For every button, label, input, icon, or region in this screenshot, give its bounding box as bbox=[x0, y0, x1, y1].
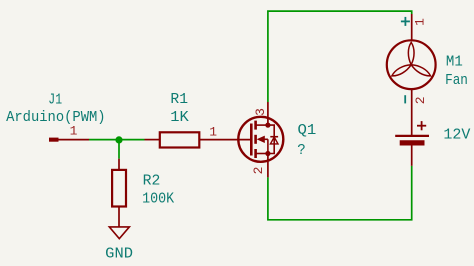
svg-text:1: 1 bbox=[412, 18, 427, 26]
svg-text:Arduino(PWM): Arduino(PWM) bbox=[6, 110, 106, 126]
svg-text:2: 2 bbox=[413, 96, 428, 104]
svg-text:3: 3 bbox=[253, 108, 268, 116]
svg-text:1: 1 bbox=[70, 124, 78, 139]
svg-text:GND: GND bbox=[105, 246, 133, 263]
svg-text:R2: R2 bbox=[143, 174, 161, 190]
svg-text:100K: 100K bbox=[142, 191, 174, 207]
svg-text:?: ? bbox=[297, 143, 306, 159]
svg-text:J1: J1 bbox=[48, 92, 62, 108]
svg-text:Q1: Q1 bbox=[298, 123, 317, 139]
svg-text:1K: 1K bbox=[170, 110, 189, 126]
svg-text:M1: M1 bbox=[446, 54, 463, 70]
svg-text:Fan: Fan bbox=[445, 73, 468, 89]
svg-text:12V: 12V bbox=[443, 126, 470, 143]
svg-text:2: 2 bbox=[251, 167, 266, 175]
svg-text:1: 1 bbox=[209, 124, 217, 139]
svg-text:R1: R1 bbox=[170, 92, 188, 108]
